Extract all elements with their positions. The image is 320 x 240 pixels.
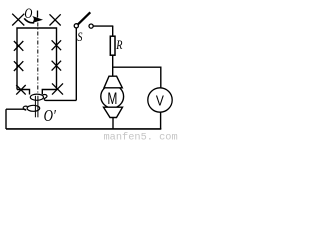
svg-text:V: V xyxy=(156,94,164,110)
svg-text:M: M xyxy=(107,90,117,108)
svg-text:O: O xyxy=(24,6,32,22)
svg-text:R: R xyxy=(115,38,122,52)
svg-text:O′: O′ xyxy=(44,106,56,125)
svg-text:S: S xyxy=(77,29,83,44)
svg-text:manfen5. com: manfen5. com xyxy=(104,131,178,142)
